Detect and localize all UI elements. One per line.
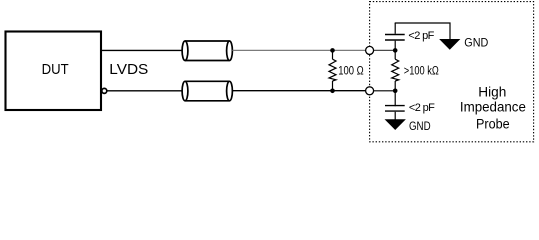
- junction dot top of R1: [330, 48, 335, 53]
- capacitor C1 top <2pF: [385, 23, 405, 50]
- junction dot top column: [393, 48, 398, 53]
- wire bottom line coax to probe node: [232, 90, 365, 92]
- svg-text:<2 pF: <2 pF: [409, 102, 435, 114]
- wire node to junction, bottom: [371, 90, 395, 92]
- resistor R1 100 ohm termination: [329, 50, 336, 90]
- wire DUT bottom output: [107, 90, 183, 92]
- coax cable top: [182, 41, 232, 61]
- svg-text:Impedance: Impedance: [460, 100, 526, 115]
- svg-text:<2 pF: <2 pF: [408, 30, 434, 42]
- junction dot bottom column: [393, 89, 398, 94]
- svg-text:GND: GND: [409, 121, 431, 133]
- wire node to junction, top: [371, 49, 395, 51]
- junction dot bottom of R1: [330, 89, 335, 94]
- capacitor C2 bottom <2pF: [385, 91, 405, 120]
- inversion bubble on DUT bottom output: [102, 88, 107, 93]
- svg-text:DUT: DUT: [42, 61, 69, 78]
- ground symbol bottom (filled triangle): [386, 120, 405, 130]
- svg-text:100 Ω: 100 Ω: [338, 66, 364, 78]
- wire DUT top output: [101, 49, 183, 51]
- input node bottom (open circle): [366, 87, 374, 95]
- input node top (open circle): [366, 46, 374, 54]
- svg-text:>100 kΩ: >100 kΩ: [404, 66, 439, 78]
- wire top line coax to probe node (gray): [232, 49, 365, 51]
- DUT box: [6, 32, 102, 111]
- svg-text:GND: GND: [464, 37, 488, 49]
- svg-text:Probe: Probe: [476, 116, 510, 131]
- svg-text:LVDS: LVDS: [109, 61, 148, 78]
- coax cable bottom: [182, 81, 232, 101]
- ground symbol top (filled triangle): [440, 39, 459, 49]
- wire jog to top ground: [395, 23, 450, 40]
- resistor R2 >100 kohm: [392, 50, 399, 90]
- dashed probe enclosure: [370, 2, 534, 142]
- svg-text:High: High: [478, 85, 506, 100]
